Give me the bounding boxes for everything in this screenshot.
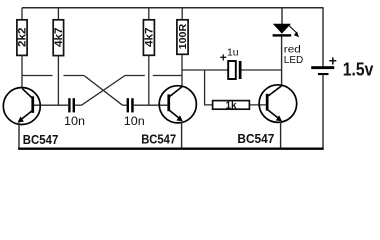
resistor R1 2k2 <box>17 20 29 56</box>
transistor Q1 BC547 (mirrored NPN) <box>3 88 40 125</box>
wire 1k tap from Q2 collector node <box>205 70 213 105</box>
capacitor C2 10n <box>124 98 145 128</box>
capacitor C3 1u electrolytic <box>220 47 242 79</box>
wire R3 top stub <box>148 8 150 20</box>
svg-text:4k7: 4k7 <box>53 28 65 48</box>
resistor R5 1k <box>213 100 250 111</box>
transistor Q2 BC547 <box>159 86 196 123</box>
wire Q1 base to C1 left plate <box>33 104 68 106</box>
wire C2 right plate to Q2 base <box>134 104 168 106</box>
wire R2 bottom to Q1 base rail <box>57 56 59 106</box>
svg-text:+: + <box>329 52 337 68</box>
svg-text:2k2: 2k2 <box>17 27 29 47</box>
wire node B horizontal right segment <box>153 75 182 77</box>
wire C1 right plate to diagonal B <box>75 104 82 106</box>
svg-text:1u: 1u <box>227 47 239 59</box>
wire node A horizontal left segment (hops over R2 wire) <box>22 75 53 77</box>
svg-text:BC547: BC547 <box>237 132 274 146</box>
svg-text:10n: 10n <box>124 114 145 128</box>
wire battery positive drop <box>322 7 324 66</box>
svg-text:100R: 100R <box>178 23 189 49</box>
wire diagonal A to C2 left plate <box>123 104 127 106</box>
wire R5 to Q3 base <box>249 104 265 106</box>
wire Q3 emitter to ground rail <box>280 121 282 149</box>
wire node B horizontal left segment (hops over R3 wire) <box>125 75 145 77</box>
battery B1 1.5v <box>311 52 337 75</box>
svg-text:1k: 1k <box>225 100 237 111</box>
LED D1 red <box>273 24 299 38</box>
resistor R4 100R <box>177 20 189 55</box>
wire Q2 collector node to C3 left <box>182 69 228 71</box>
wire R4 bottom to Q2 collector <box>181 54 183 86</box>
wire battery negative to ground rail <box>322 75 324 149</box>
svg-text:BC547: BC547 <box>141 133 176 147</box>
wire R1 top stub <box>21 8 23 20</box>
wire ground rail <box>18 148 323 150</box>
svg-text:4k7: 4k7 <box>144 27 156 47</box>
svg-text:+: + <box>220 51 227 65</box>
capacitor C1 10n <box>64 98 85 128</box>
label red LED <box>284 44 304 67</box>
wire top supply rail <box>22 7 323 9</box>
wire Q1 collector stub <box>21 76 23 89</box>
LED D1 anode wire from rail <box>281 8 283 24</box>
wire node A horizontal right segment <box>64 75 85 77</box>
wire R1 bottom to node A (Q1 collector node) <box>21 55 23 75</box>
svg-text:1.5v: 1.5v <box>343 60 374 80</box>
svg-text:BC547: BC547 <box>23 133 59 147</box>
wire R2 top stub <box>57 8 59 20</box>
wire Q2 emitter to ground rail <box>181 121 183 149</box>
svg-text:LED: LED <box>284 54 304 66</box>
wire cross-coupling diagonal B (Q2 collector to C1) <box>82 76 126 106</box>
wire cross-coupling diagonal A (Q1 collector to C2) <box>84 76 123 106</box>
wire R4 top stub <box>181 8 183 20</box>
svg-text:10n: 10n <box>64 114 85 128</box>
resistor R2 4k7 <box>53 20 65 56</box>
wire Q1 emitter to ground rail <box>18 123 20 150</box>
wire R3 bottom to Q2 base rail <box>148 55 150 105</box>
resistor R3 4k7 <box>143 20 155 56</box>
transistor Q3 BC547 <box>259 85 297 123</box>
wire C3 right to LED cathode node <box>242 69 282 71</box>
wire LED cathode to Q3 collector <box>281 37 283 86</box>
